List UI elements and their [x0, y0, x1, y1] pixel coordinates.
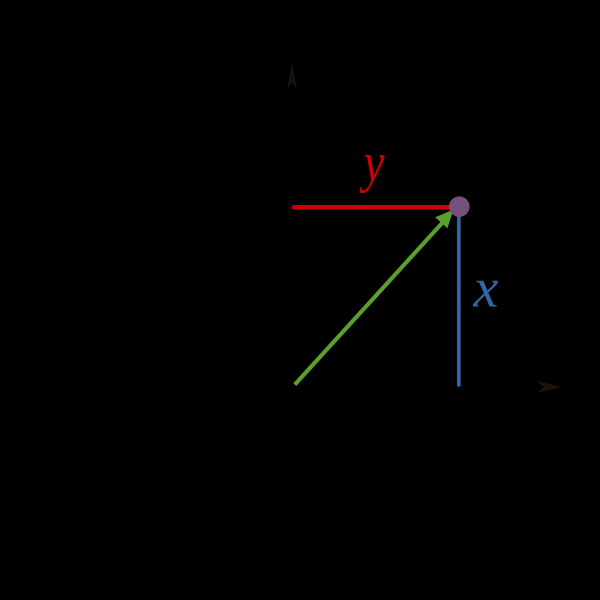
svg-text:y: y — [359, 132, 384, 194]
svg-text:x: x — [473, 258, 499, 320]
